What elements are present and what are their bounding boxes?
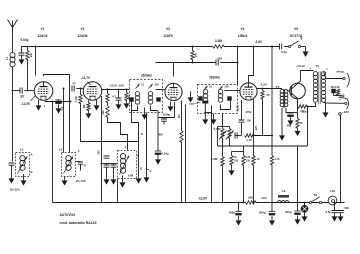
svg-text:200µ: 200µ: [285, 210, 292, 214]
V1 cathode network: [45, 101, 71, 103]
svg-text:B: B: [30, 170, 32, 174]
L4 to bus: [117, 179, 119, 203]
svg-text:1M: 1M: [82, 105, 86, 109]
svg-text:0,5µ: 0,5µ: [281, 50, 287, 54]
svg-text:100: 100: [217, 57, 222, 61]
staircase wire 2: [108, 117, 128, 151]
speaker wire mid: [334, 95, 342, 97]
filter cap 500u: [269, 211, 275, 213]
T2 resistor 170 bar: [202, 101, 208, 104]
chassis mark: [338, 96, 341, 100]
svg-text:E: E: [150, 169, 152, 173]
T2 right side bottom wiring: [221, 105, 231, 110]
svg-text:-11,7V: -11,7V: [81, 76, 91, 80]
svg-text:0,5M: 0,5M: [128, 175, 133, 178]
svg-text:0,04µ: 0,04µ: [163, 113, 170, 117]
svg-text:A: A: [30, 153, 32, 157]
series resistor 220: [246, 201, 257, 204]
svg-text:10÷120: 10÷120: [10, 188, 20, 192]
wire from AF line down to bus: [297, 146, 299, 203]
svg-text:0,5µ: 0,5µ: [342, 97, 347, 100]
filter cap 200u: [297, 202, 299, 204]
svg-text:220: 220: [248, 196, 253, 200]
svg-text:V2: V2: [81, 27, 85, 31]
svg-text:-10,9V: -10,9V: [236, 104, 240, 112]
series cap: [235, 135, 242, 137]
wire down to bottom bus: [52, 101, 54, 103]
svg-text:50µ: 50µ: [287, 124, 292, 128]
wire bus to V1: [35, 46, 37, 48]
screen resistor: [107, 89, 109, 91]
svg-text:47: 47: [72, 82, 76, 86]
speaker plug brackets: [347, 73, 349, 87]
svg-text:L4: L4: [125, 145, 129, 149]
svg-text:33: 33: [20, 95, 24, 99]
svg-text:2,2k: 2,2k: [335, 86, 340, 89]
ground arrow: [305, 47, 307, 52]
L2 cap: [9, 163, 15, 165]
svg-text:300: 300: [345, 206, 350, 210]
collector up to T4: [297, 71, 314, 85]
IF transformer T1 262kHz: [130, 80, 163, 113]
svg-text:1W: 1W: [234, 159, 238, 163]
svg-text:0,04µ: 0,04µ: [20, 38, 28, 42]
svg-text:10÷120: 10÷120: [76, 179, 86, 183]
wire: [224, 46, 254, 48]
T3 bottoms: [281, 108, 283, 134]
staircase wire to L4: [81, 117, 139, 177]
speaker wiring top: [324, 72, 343, 79]
T1 tuning caps: [129, 97, 133, 101]
bypass cap: [58, 100, 60, 102]
svg-text:T4: T4: [315, 64, 319, 68]
svg-text:220: 220: [97, 150, 101, 155]
resistor 100: [126, 89, 128, 91]
svg-text:V1: V1: [41, 27, 45, 31]
emitter resistor 220: [297, 99, 299, 107]
resistor: [70, 101, 72, 103]
svg-text:S: S: [300, 37, 302, 41]
speaker wire bottom: [324, 102, 345, 105]
pointer line: [31, 96, 36, 101]
oscillator line from V2 down: [101, 96, 103, 164]
L3 trimmer cap: [76, 161, 81, 163]
wire V4 plate to T3: [257, 88, 282, 90]
1k 1W resistor: [232, 151, 244, 153]
cap 0,5u: [334, 202, 336, 204]
L3 ground: [64, 177, 66, 179]
bypass cap: [118, 89, 120, 91]
V2 cathode resistor 1M: [88, 100, 90, 102]
tube V4 12BL6 det/AF: [240, 83, 257, 100]
oscillator padder caps: [102, 163, 118, 165]
grid wire to V1 with cap 33: [13, 90, 21, 92]
svg-text:S1: S1: [314, 193, 318, 197]
svg-text:470k: 470k: [246, 110, 252, 114]
wire from bus down into T2: [237, 46, 239, 48]
wire V1 plate down to tuner L3: [69, 89, 71, 153]
cap 300: [340, 202, 342, 204]
T3 secondary to base: [286, 90, 291, 92]
screen resistor 1M from bus: [192, 46, 194, 48]
svg-text:-1,6V: -1,6V: [255, 40, 263, 44]
tube V2 12AD6 converter: [83, 82, 102, 101]
filter cap 100u: [238, 202, 240, 204]
svg-text:L1: L1: [5, 56, 9, 60]
coupling cap: [241, 100, 243, 120]
transistor V5 output: [290, 83, 306, 99]
long vertical from T2: [211, 113, 213, 203]
svg-text:3,3M: 3,3M: [215, 39, 222, 43]
wire bus down to V4 top cap: [253, 46, 255, 48]
svg-text:L3: L3: [59, 148, 63, 152]
wire from T4 return: [307, 103, 315, 107]
detector / volume control network: [222, 114, 224, 129]
svg-text:altop.: altop.: [337, 70, 345, 74]
svg-text:T3: T3: [276, 85, 280, 89]
T2 to V4 grid: [225, 90, 240, 92]
svg-text:4,7k: 4,7k: [246, 138, 252, 142]
svg-text:V3: V3: [166, 27, 170, 31]
svg-text:120: 120: [224, 85, 229, 89]
long vertical: [185, 105, 187, 203]
grid resistor 4,7M: [80, 88, 82, 90]
top AVC bus: [22, 46, 213, 48]
svg-text:15: 15: [299, 121, 303, 125]
svg-text:100: 100: [247, 119, 252, 123]
L4 grounds: [122, 176, 124, 181]
bias line from -1,6V node: [271, 46, 273, 48]
electrolytic 50u: [291, 112, 298, 114]
wire down to tuner L3 terminal: [63, 88, 65, 90]
svg-text:4,7k: 4,7k: [275, 157, 281, 161]
T1 bottom wiring: [132, 102, 138, 111]
tuner coil L3: [62, 153, 76, 177]
svg-text:12AC6: 12AC6: [38, 34, 48, 38]
emitter branch down: [297, 107, 299, 119]
dial lamp: [304, 202, 306, 204]
svg-text:mod. autoradio RA115: mod. autoradio RA115: [60, 221, 97, 225]
470 1W resistor line: [243, 147, 245, 156]
svg-text:680: 680: [158, 133, 163, 137]
V3 plate line up and over: [156, 62, 216, 64]
svg-text:+12V: +12V: [342, 110, 349, 114]
svg-text:12AF6: 12AF6: [163, 34, 173, 38]
T1 secondary to V3: [156, 89, 166, 91]
resistor 680 to bus: [181, 118, 183, 131]
V4 cathode line with resistor 10: [253, 99, 255, 156]
V3 cathode parts: [170, 102, 172, 105]
svg-text:-12,8÷-15V: -12,8÷-15V: [109, 84, 124, 88]
svg-text:-13,4V: -13,4V: [296, 64, 305, 68]
resistor 3,3M: [213, 45, 225, 48]
svg-text:-2,2V: -2,2V: [260, 83, 267, 87]
svg-text:12BL6: 12BL6: [238, 34, 248, 38]
svg-text:-12V: -12V: [260, 196, 266, 200]
svg-text:G: G: [140, 167, 142, 171]
svg-text:-11,6V: -11,6V: [198, 197, 208, 201]
V2 pin ground: [96, 100, 98, 104]
AVC line down: [146, 113, 148, 176]
svg-text:L9: L9: [282, 189, 286, 193]
resistor 4,7k to V5 base: [245, 134, 255, 137]
wire down: [307, 107, 309, 147]
svg-text:12AD6: 12AD6: [78, 34, 88, 38]
L2 ground: [23, 174, 25, 179]
svg-text:D: D: [141, 132, 143, 136]
svg-text:V4: V4: [241, 27, 245, 31]
V1 plate wire over the top: [44, 75, 70, 89]
svg-text:100µ: 100µ: [229, 211, 236, 215]
svg-text:1M: 1M: [29, 53, 33, 58]
V3 cathode line: [174, 102, 176, 118]
T4 core ground: [325, 103, 327, 111]
svg-text:-11V: -11V: [179, 114, 181, 119]
svg-text:1W: 1W: [246, 159, 250, 163]
svg-text:0,5µ: 0,5µ: [326, 210, 332, 214]
resistor 1M grid leak V1: [27, 46, 29, 48]
svg-text:F: F: [78, 149, 80, 153]
IF transformer T2 262kHz: [198, 85, 238, 114]
ground: [19, 58, 24, 64]
svg-text:L10: L10: [330, 189, 336, 193]
svg-text:56: 56: [267, 93, 271, 97]
svg-text:AUTOVOX: AUTOVOX: [60, 213, 77, 217]
series cap 47 to V2 grid: [72, 86, 74, 92]
tuner coil L2: [16, 153, 30, 177]
svg-text:4,7M: 4,7M: [74, 97, 78, 103]
resistor 56: [262, 88, 264, 90]
svg-text:0,04µ: 0,04µ: [162, 152, 169, 156]
svg-text:V5: V5: [294, 27, 298, 31]
coil L1: [10, 53, 15, 58]
resistor 22k chain down: [107, 102, 109, 106]
bottom supply bus: [53, 202, 246, 204]
oscillator coil L4: [118, 151, 137, 179]
cap 100: [216, 60, 218, 66]
svg-text:170: 170: [189, 102, 194, 106]
svg-text:1M: 1M: [194, 53, 198, 58]
svg-text:262kHz: 262kHz: [141, 74, 152, 78]
svg-text:-12,5V: -12,5V: [21, 102, 31, 106]
tube V1 12AC6: [34, 82, 53, 101]
resistor 3,3M to bus: [221, 157, 224, 167]
svg-text:470: 470: [246, 155, 251, 159]
+12V terminal: [339, 113, 342, 116]
V2 plate wire to T1: [102, 89, 130, 91]
wire antenna down to tuner L2: [12, 67, 14, 162]
antenna: [8, 20, 18, 28]
tube V3 12AF6 IF amp: [165, 83, 182, 100]
svg-text:D: D: [137, 154, 139, 158]
T2 bottom wiring: [204, 104, 206, 118]
svg-text:L2: L2: [20, 148, 24, 152]
svg-text:-12V: -12V: [255, 126, 258, 131]
staircase wire from T1: [132, 111, 139, 142]
svg-text:500µ: 500µ: [259, 211, 266, 215]
svg-text:262kHz: 262kHz: [209, 76, 220, 80]
tone pot: [218, 126, 230, 128]
svg-text:100: 100: [154, 83, 159, 87]
